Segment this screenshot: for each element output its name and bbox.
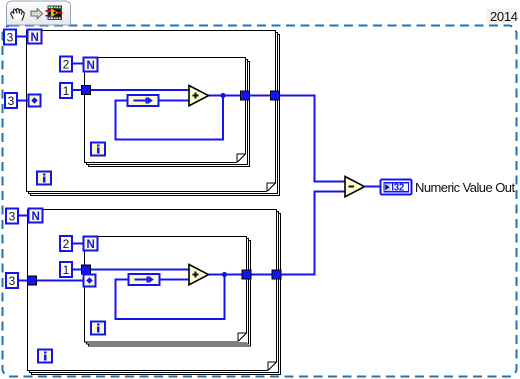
wire feedback loop inner2	[116, 275, 225, 320]
constant 1 (inner loop 1)	[60, 83, 72, 98]
N terminal inner loop 1	[84, 58, 98, 73]
output tunnel inner loop 1	[241, 91, 250, 100]
feedback node F2	[129, 274, 160, 285]
add function U1	[189, 86, 209, 106]
wire subtract to indicator	[365, 186, 381, 188]
wire add output to tunnels inner2/outer2	[209, 192, 345, 275]
iteration terminal inner loop 1	[91, 143, 105, 156]
svg-text:Numeric Value Out: Numeric Value Out	[415, 180, 515, 195]
output tunnel inner loop 2	[242, 270, 251, 279]
constant 3 (outer loop 2 count)	[6, 209, 18, 224]
wire constant3d to input tunnel outer2	[18, 280, 28, 282]
wire add output to tunnels inner1/outer1	[209, 96, 346, 182]
svg-text:3: 3	[9, 210, 16, 224]
svg-text:3: 3	[8, 94, 15, 108]
iteration terminal outer loop 1	[37, 172, 51, 185]
svg-text:N: N	[86, 239, 94, 251]
for-loop OUTER1 frame	[27, 31, 280, 196]
hand tool icon	[11, 9, 24, 21]
subtract function U3	[345, 177, 365, 197]
constant 3 (outer loop 1 count)	[4, 30, 16, 45]
junction node J1	[220, 93, 225, 98]
svg-text:1: 1	[63, 263, 70, 277]
N terminal inner loop 2	[84, 237, 98, 252]
LabVIEW snippet film icon	[46, 6, 63, 21]
iteration terminal inner loop 2	[91, 322, 105, 335]
svg-text:I32: I32	[391, 182, 405, 193]
svg-text:2014: 2014	[490, 9, 518, 24]
wire constant3a to N1	[16, 36, 27, 38]
svg-text:N: N	[86, 60, 94, 72]
wire constant1b to tunnel inner2	[72, 269, 84, 271]
wire constant2b to N inner2	[72, 243, 83, 245]
svg-text:1: 1	[63, 84, 70, 98]
wire constant2a to N inner1	[72, 63, 83, 65]
constant 2 (inner loop 2 count)	[60, 236, 72, 251]
diamond tunnel inner loop 2	[84, 275, 96, 287]
feedback node F1	[128, 95, 159, 106]
constant 3 (outer loop 1 left)	[5, 93, 17, 108]
constant 2 (inner loop 1 count)	[60, 57, 72, 72]
constant 3 (outer loop 2 left)	[6, 273, 18, 288]
toolbar box	[7, 1, 71, 25]
N terminal outer loop 2	[29, 209, 43, 224]
for-loop INNER1 frame	[85, 58, 250, 167]
diamond tunnel outer loop 1	[29, 95, 41, 107]
svg-text:N: N	[30, 32, 38, 44]
iteration terminal outer loop 2	[38, 350, 52, 363]
for-loop OUTER2 frame	[28, 210, 281, 375]
indicator terminal I32	[381, 180, 412, 195]
add function U2	[189, 265, 209, 285]
wire constant3c to N2	[18, 215, 28, 217]
wire constant3b to diamond tunnel	[17, 100, 30, 102]
wire tunnel to add input inner2	[90, 269, 189, 271]
svg-text:3: 3	[9, 274, 16, 288]
wire constant1a to tunnel	[72, 89, 84, 91]
svg-text:3: 3	[7, 31, 14, 45]
wire tunnel to add input inner1	[90, 89, 189, 91]
arrow tool icon	[31, 9, 43, 19]
wire tunnel outer2 to diamond tunnel inner2	[36, 280, 84, 282]
svg-text:N: N	[31, 211, 39, 223]
input tunnel inner loop 1	[82, 86, 91, 95]
output tunnel outer loop 2	[272, 270, 281, 279]
wire feedback loop inner1	[116, 96, 224, 140]
svg-text:2: 2	[63, 237, 70, 251]
constant 1 (inner loop 2)	[60, 262, 72, 277]
svg-text:2: 2	[63, 58, 70, 72]
input tunnel outer loop 2	[28, 276, 37, 285]
output tunnel outer loop 1	[271, 91, 280, 100]
junction node J2	[222, 272, 227, 277]
for-loop INNER2 frame	[85, 237, 251, 347]
input tunnel inner loop 2	[82, 265, 91, 274]
2014 version label	[487, 9, 517, 24]
N terminal outer loop 1	[28, 30, 42, 45]
